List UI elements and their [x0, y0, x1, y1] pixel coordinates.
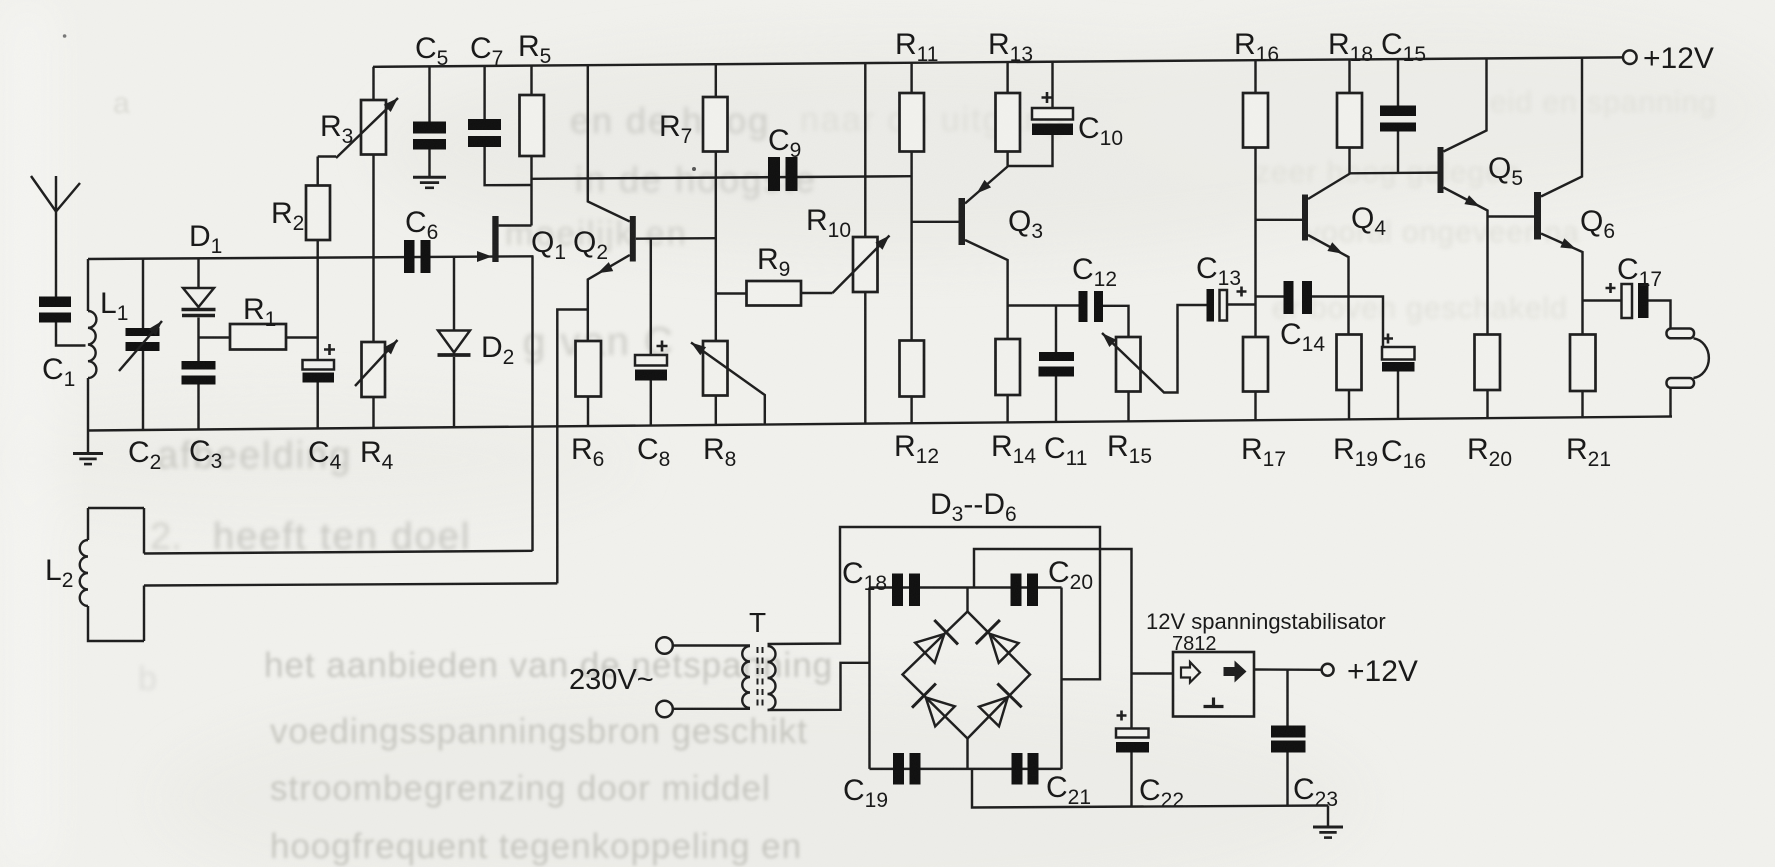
transistor Q6 [1488, 215, 1535, 217]
wire: output to C23 [1286, 670, 1288, 726]
capacitor C1 [39, 297, 71, 308]
svg-text:T: T [749, 607, 766, 638]
resistor R7 [715, 64, 717, 97]
svg-text:D3--D6: D3--D6 [930, 488, 1017, 526]
svg-text:eid en spanning: eid en spanning [1490, 86, 1717, 119]
resistor R21 [1570, 335, 1596, 392]
transistor Q1 [477, 251, 492, 262]
svg-text:12V spanningstabilisator: 12V spanningstabilisator [1146, 609, 1386, 634]
svg-text:+12V: +12V [1347, 655, 1418, 688]
resistor R18 [1348, 59, 1350, 93]
transistor Q2 [630, 216, 636, 262]
resistor R8 (variable) [703, 341, 728, 396]
bridge rectifier frame (C18-C21 ring) [870, 586, 1062, 588]
capacitor C23 [1271, 726, 1306, 738]
diode D1 [197, 258, 199, 288]
node A (ink speck) [692, 167, 696, 171]
wire: ground bottom rail [88, 417, 1672, 431]
svg-text:hoogfrequent tegenkoppeling en: hoogfrequent tegenkoppeling en [270, 827, 802, 866]
bridge rectifier diamond D3 to D6 [903, 612, 1031, 739]
wire: Q4 collector to Q5 base [1350, 171, 1438, 174]
wire: bridge DC+ to regulator input [974, 549, 1132, 729]
diode D3 (upper-left arm) [915, 634, 944, 663]
wire: regulator output [1254, 668, 1322, 671]
wire: tuned-circuit node line (L1/C2/D1/R2/R3/R4/C6 to Q1) [88, 256, 534, 259]
capacitor C9 [768, 157, 780, 191]
transistor Q4 [1256, 219, 1303, 221]
terminal +12V (top right) [1623, 50, 1637, 64]
wire: bridge DC- to supply ground rail [972, 769, 1328, 808]
svg-text:+12V: +12V [1643, 42, 1714, 75]
capacitor C7 [483, 66, 485, 119]
wire: L2 bottom to Q2 emitter (wire B) [144, 583, 557, 585]
wire: secondary top to bridge right (over loop) [768, 527, 1101, 679]
capacitor C5 [428, 66, 430, 121]
capacitor C18 [892, 574, 903, 607]
terminal 230V line (lower) [656, 701, 673, 718]
inductor L2 (feedback winding) [88, 507, 144, 509]
terminal 230V line (upper) [656, 637, 673, 654]
capacitor C22 (electrolytic) [1116, 729, 1149, 738]
resistor R20 [1475, 335, 1501, 391]
terminal +12V (regulator output) [1322, 664, 1334, 676]
resistor R6 [587, 310, 589, 342]
resistor R10 (potentiometer) [864, 63, 866, 237]
capacitor C2 (variable) [142, 259, 144, 328]
wire: R2/C4 branch vertical [316, 157, 318, 361]
diode D5 (lower-left arm) [926, 697, 955, 726]
wire: Q1 node down to L2 winding (wire A riser) [531, 256, 533, 551]
capacitor C11 [1055, 306, 1057, 353]
ground (power supply) [1327, 806, 1329, 827]
ground (L1 / tank) [87, 431, 89, 454]
transistor Q3 [912, 221, 959, 223]
resistor R17 [1243, 337, 1268, 392]
svg-text:230V~: 230V~ [569, 664, 654, 696]
capacitor C4 (electrolytic) [303, 360, 335, 370]
wire: secondary bottom to bridge left [768, 663, 870, 710]
svg-text:a: a [113, 87, 130, 120]
capacitor C17 (electrolytic) [1583, 299, 1622, 301]
capacitor C13 (electrolytic) [1207, 289, 1215, 322]
capacitor C16 (electrolytic) [1382, 347, 1415, 360]
transformer T [742, 646, 750, 708]
svg-text:2.: 2. [150, 516, 182, 558]
resistor R13 [1006, 62, 1008, 93]
transistor Q5 [1438, 147, 1444, 193]
svg-text:stroombegrenzing door middel: stroombegrenzing door middel [270, 769, 771, 808]
svg-text:voedingsspanningsbron geschikt: voedingsspanningsbron geschikt [270, 712, 808, 751]
wire: L2 top to Q1 node (wire A) [144, 551, 533, 554]
wire: mains to primary (lower) [673, 708, 750, 710]
capacitor C6 [404, 240, 415, 273]
capacitor C12 [1079, 291, 1088, 322]
resistor R4 (variable) [362, 342, 386, 397]
capacitor C20 [1011, 574, 1022, 607]
resistor R2 [318, 155, 336, 157]
resistor R5 [530, 66, 532, 95]
resistor R15 (potentiometer) [1116, 337, 1141, 392]
wire: mains to primary (upper) [673, 644, 750, 646]
resistor R3 (variable) [372, 67, 374, 100]
diode D2 [453, 257, 455, 331]
diode D4 (upper-right arm) [990, 634, 1019, 663]
capacitor C19 [893, 753, 904, 785]
capacitor C10 (electrolytic) [1051, 61, 1053, 108]
resistor R9 [716, 292, 747, 294]
svg-text:b: b [138, 660, 157, 698]
wire: C9 coupling line (R5 node to R11/R12 node) [532, 176, 912, 179]
node B (ink speck) [63, 34, 67, 38]
capacitor C15 [1397, 59, 1399, 106]
capacitor C14 [1256, 295, 1284, 297]
ground (C5) [413, 176, 446, 179]
capacitor C21 [1012, 753, 1023, 785]
resistor R19 [1337, 335, 1362, 391]
svg-text:in de hoogste: in de hoogste [575, 159, 817, 200]
svg-text:het aanbieden van de netspanni: het aanbieden van de netspanning [264, 646, 833, 685]
resistor R16 [1254, 60, 1256, 93]
wire: +12V top supply rail [373, 57, 1623, 66]
svg-text:7812: 7812 [1172, 633, 1217, 655]
antenna [55, 212, 57, 297]
wire: Q3 collector node to C12/C11 [1008, 304, 1079, 306]
diode D6 (lower-right arm) [979, 697, 1008, 726]
wire: regulator input branch [1132, 672, 1174, 674]
earphone (output transducer) [1667, 329, 1695, 339]
capacitor C3 [182, 361, 216, 370]
wire: Q2 emitter jog to wire B riser [557, 310, 588, 584]
capacitor C8 (electrolytic) [650, 239, 652, 355]
resistor R11 [910, 63, 912, 93]
voltage regulator U1 7812 [1173, 652, 1254, 717]
svg-text:naar de uitgang: naar de uitgang [800, 101, 1066, 139]
resistor R1 [199, 336, 231, 338]
resistor R12 [900, 341, 925, 397]
resistor R14 [996, 339, 1021, 395]
inductor L1 [87, 259, 89, 311]
